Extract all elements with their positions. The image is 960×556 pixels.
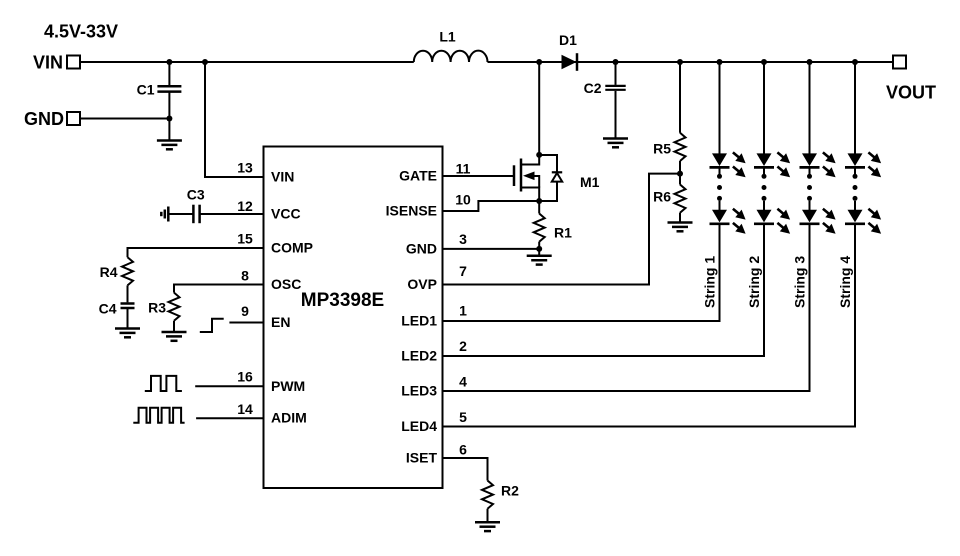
svg-text:OVP: OVP <box>407 276 437 292</box>
svg-text:LED3: LED3 <box>401 383 437 399</box>
svg-text:5: 5 <box>459 409 467 425</box>
svg-text:1: 1 <box>459 303 467 319</box>
svg-text:3: 3 <box>459 231 467 247</box>
svg-text:9: 9 <box>241 303 249 319</box>
svg-text:8: 8 <box>241 268 249 284</box>
svg-text:D1: D1 <box>559 32 577 48</box>
svg-text:R5: R5 <box>653 141 671 157</box>
svg-text:LED4: LED4 <box>401 418 437 434</box>
svg-text:M1: M1 <box>580 174 600 190</box>
svg-text:PWM: PWM <box>271 378 305 394</box>
svg-text:String 2: String 2 <box>746 256 762 308</box>
svg-text:ISET: ISET <box>406 450 438 466</box>
svg-text:GND: GND <box>406 241 437 257</box>
svg-text:R3: R3 <box>148 300 166 316</box>
svg-text:VIN: VIN <box>271 169 294 185</box>
svg-text:OSC: OSC <box>271 276 301 292</box>
svg-text:R2: R2 <box>501 483 519 499</box>
svg-text:GATE: GATE <box>399 167 437 183</box>
svg-text:15: 15 <box>237 230 253 246</box>
svg-text:14: 14 <box>237 401 253 417</box>
svg-text:GND: GND <box>24 109 64 129</box>
svg-text:R4: R4 <box>100 264 118 280</box>
svg-text:11: 11 <box>456 161 471 177</box>
svg-text:4: 4 <box>459 373 467 389</box>
svg-text:ISENSE: ISENSE <box>386 203 437 219</box>
svg-text:13: 13 <box>237 160 253 176</box>
svg-text:VOUT: VOUT <box>886 83 936 103</box>
svg-text:R6: R6 <box>653 189 671 205</box>
svg-text:2: 2 <box>459 338 467 354</box>
svg-text:String 1: String 1 <box>702 256 718 308</box>
svg-text:16: 16 <box>237 369 253 385</box>
svg-text:EN: EN <box>271 314 290 330</box>
svg-text:4.5V-33V: 4.5V-33V <box>44 22 118 42</box>
svg-text:10: 10 <box>455 192 471 208</box>
svg-text:COMP: COMP <box>271 240 313 256</box>
svg-text:C4: C4 <box>99 301 117 317</box>
svg-text:L1: L1 <box>439 29 456 45</box>
svg-text:R1: R1 <box>554 225 572 241</box>
svg-text:LED2: LED2 <box>401 348 437 364</box>
svg-text:ADIM: ADIM <box>271 410 307 426</box>
svg-text:VIN: VIN <box>33 53 63 73</box>
svg-text:6: 6 <box>459 441 467 457</box>
svg-text:C3: C3 <box>187 187 205 203</box>
svg-text:7: 7 <box>459 263 467 279</box>
svg-text:String 3: String 3 <box>792 256 808 308</box>
svg-text:LED1: LED1 <box>401 313 437 329</box>
svg-text:C1: C1 <box>137 82 155 98</box>
svg-text:C2: C2 <box>584 80 602 96</box>
svg-text:String 4: String 4 <box>837 256 853 308</box>
svg-text:VCC: VCC <box>271 206 301 222</box>
svg-text:MP3398E: MP3398E <box>301 290 384 311</box>
svg-text:12: 12 <box>237 198 253 214</box>
